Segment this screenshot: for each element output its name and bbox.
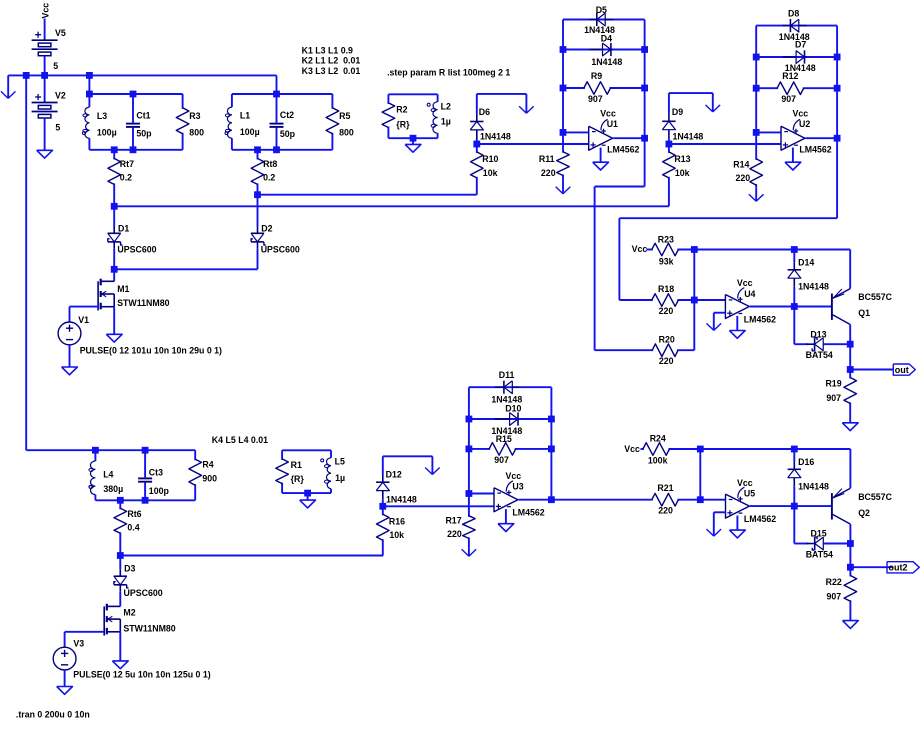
wire — [794, 505, 832, 507]
op-amp U5 — [726, 478, 777, 524]
wire — [668, 93, 670, 114]
svg-text:L1: L1 — [240, 110, 250, 120]
net arrow — [556, 180, 571, 194]
svg-text:.tran 0 200u 0 10n: .tran 0 200u 0 10n — [16, 710, 90, 720]
wire — [823, 343, 850, 345]
wire — [824, 543, 851, 545]
wire — [476, 139, 478, 145]
directive text K2 — [302, 56, 361, 66]
wire — [44, 118, 46, 151]
svg-text:D14: D14 — [798, 258, 814, 268]
capacitor Ct1 — [126, 94, 152, 150]
net label Vcc (top) — [41, 3, 51, 19]
wire — [793, 250, 795, 263]
junction — [641, 46, 648, 53]
svg-text:907: 907 — [827, 592, 842, 602]
svg-text:1µ: 1µ — [441, 116, 451, 126]
svg-text:R1: R1 — [291, 460, 302, 470]
wire — [594, 187, 596, 351]
junction — [111, 146, 118, 153]
svg-text:out2: out2 — [889, 563, 908, 573]
wire — [113, 269, 115, 281]
svg-text:PULSE(0 12 101u 10n 10n 29u 0: PULSE(0 12 101u 10n 10n 29u 0 1) — [80, 346, 222, 356]
wire — [257, 249, 259, 269]
wire — [756, 131, 781, 133]
svg-text:D1: D1 — [118, 223, 129, 233]
svg-text:1N4148: 1N4148 — [673, 132, 704, 142]
diode D4 — [589, 34, 622, 68]
junction — [86, 91, 93, 98]
net arrow — [749, 187, 764, 201]
svg-text:D10: D10 — [505, 404, 521, 414]
wire — [794, 343, 808, 345]
resistor R14 — [733, 132, 762, 187]
svg-text:50p: 50p — [136, 129, 152, 139]
wire — [119, 556, 121, 570]
junction — [548, 446, 555, 453]
wire — [469, 418, 552, 420]
svg-text:R4: R4 — [202, 459, 213, 469]
svg-text:907: 907 — [494, 455, 509, 465]
svg-text:Vcc: Vcc — [737, 478, 753, 488]
junction — [273, 146, 280, 153]
svg-text:K1 L3 L1 0.9: K1 L3 L1 0.9 — [302, 45, 353, 55]
net arrow — [425, 456, 440, 474]
net label Vcc — [632, 244, 648, 254]
op-amp U4 — [725, 278, 776, 324]
diode D16 — [788, 457, 829, 491]
resistor Rt8 — [251, 150, 277, 195]
resistor R21 — [652, 483, 701, 516]
inductor L5 — [321, 450, 345, 493]
svg-text:220: 220 — [659, 356, 674, 366]
svg-text:U4: U4 — [744, 289, 755, 299]
junction — [117, 552, 124, 559]
junction — [791, 503, 798, 510]
junction — [753, 129, 760, 136]
junction — [791, 446, 798, 453]
wire — [89, 93, 182, 95]
svg-text:Ct2: Ct2 — [280, 110, 294, 120]
ground — [405, 144, 421, 152]
net arrow — [707, 313, 722, 331]
wire — [69, 307, 71, 322]
junction — [697, 446, 704, 453]
svg-text:out: out — [895, 365, 909, 375]
wire — [700, 499, 725, 501]
resistor R18 — [619, 284, 694, 316]
junction — [560, 85, 567, 92]
svg-text:R16: R16 — [389, 516, 405, 526]
svg-text:R21: R21 — [657, 483, 673, 493]
svg-text:R20: R20 — [659, 335, 675, 345]
wire — [95, 449, 195, 451]
wire — [849, 325, 851, 370]
junction — [92, 447, 99, 454]
op-amp U2 — [781, 109, 832, 155]
svg-text:{R}: {R} — [396, 120, 410, 130]
ground — [300, 500, 316, 508]
svg-text:M2: M2 — [123, 608, 135, 618]
svg-text:LM4562: LM4562 — [744, 315, 776, 325]
svg-text:R14: R14 — [733, 159, 749, 169]
ground — [106, 334, 122, 342]
junction — [834, 85, 841, 92]
svg-text:50p: 50p — [280, 129, 296, 139]
resistor R2 — [382, 94, 410, 138]
svg-text:K4 L5 L4 0.01: K4 L5 L4 0.01 — [212, 435, 268, 445]
svg-text:0.2: 0.2 — [120, 173, 132, 183]
wire — [70, 306, 99, 308]
wire — [114, 268, 257, 270]
svg-text:D12: D12 — [386, 470, 402, 480]
svg-text:1N4148: 1N4148 — [798, 282, 829, 292]
wire — [64, 632, 66, 647]
wire — [25, 75, 27, 450]
wire — [793, 486, 795, 506]
wire — [793, 506, 795, 543]
svg-text:R12: R12 — [782, 71, 798, 81]
resistor R19 — [825, 370, 856, 423]
diode D2 — [251, 223, 300, 254]
transistor Q2 — [832, 488, 893, 524]
wire — [694, 249, 850, 251]
wire — [282, 449, 331, 451]
capacitor Ct3 — [138, 450, 169, 500]
resistor R23 — [647, 235, 695, 267]
svg-text:BAT54: BAT54 — [806, 350, 833, 360]
wire — [258, 194, 477, 196]
wire — [794, 543, 808, 545]
svg-text:220: 220 — [658, 506, 673, 516]
wire — [693, 250, 695, 351]
svg-text:BC557C: BC557C — [858, 492, 892, 502]
svg-text:10k: 10k — [483, 168, 498, 178]
wire — [69, 345, 71, 367]
ground — [842, 423, 858, 431]
wire — [619, 217, 837, 219]
ground — [62, 367, 78, 375]
svg-text:V2: V2 — [55, 90, 66, 100]
resistor R15 — [469, 434, 552, 465]
diode D1 — [108, 223, 157, 254]
wire — [563, 49, 645, 51]
wire — [750, 306, 794, 308]
wire — [44, 75, 46, 102]
net arrow — [707, 512, 722, 536]
junction — [410, 135, 417, 142]
junction — [23, 72, 30, 79]
wire — [469, 386, 552, 388]
ground — [730, 516, 746, 538]
junction — [666, 141, 673, 148]
ground — [593, 148, 609, 170]
wire — [562, 20, 564, 133]
net arrow — [1, 75, 16, 98]
svg-text:220: 220 — [541, 168, 556, 178]
svg-text:R23: R23 — [658, 235, 674, 245]
junction — [847, 564, 854, 571]
svg-text:PULSE(0 12 5u 10n 10n 125u 0 1: PULSE(0 12 5u 10n 10n 125u 0 1) — [73, 670, 210, 680]
svg-text:LM4562: LM4562 — [512, 508, 544, 518]
wire — [750, 505, 794, 507]
wire — [699, 449, 701, 500]
junction — [548, 416, 555, 423]
svg-text:1N4148: 1N4148 — [591, 57, 622, 67]
junction — [834, 135, 841, 142]
svg-text:Ct3: Ct3 — [149, 468, 163, 478]
diode D14 — [788, 258, 829, 292]
transistor Q1 — [832, 289, 893, 325]
svg-text:R17: R17 — [445, 516, 461, 526]
svg-text:UPSC600: UPSC600 — [261, 244, 300, 254]
capacitor Ct2 — [270, 94, 296, 150]
svg-text:R3: R3 — [189, 111, 200, 121]
junction — [847, 341, 854, 348]
wire — [113, 206, 115, 226]
resistor R22 — [826, 567, 857, 620]
junction — [691, 246, 698, 253]
diode D5 — [584, 5, 615, 35]
svg-text:D7: D7 — [795, 40, 806, 50]
svg-text:Rt7: Rt7 — [120, 159, 134, 169]
svg-text:Rt6: Rt6 — [127, 509, 141, 519]
junction — [111, 266, 118, 273]
wire — [64, 670, 66, 687]
svg-text:U2: U2 — [799, 119, 810, 129]
wire — [836, 26, 838, 219]
inductor L4 — [89, 450, 123, 500]
wire — [668, 138, 670, 144]
svg-text:Vcc: Vcc — [737, 278, 753, 288]
inductor L3 — [83, 94, 117, 150]
wire — [382, 456, 384, 474]
svg-text:{R}: {R} — [291, 474, 305, 484]
wire — [388, 93, 437, 95]
svg-text:D6: D6 — [479, 107, 490, 117]
junction — [691, 297, 698, 304]
junction — [273, 91, 280, 98]
wire — [113, 249, 115, 269]
svg-text:STW11NM80: STW11NM80 — [117, 298, 169, 308]
net arrow — [706, 93, 721, 112]
wire — [756, 56, 837, 58]
directive text .tran — [16, 710, 90, 720]
wire — [669, 92, 713, 94]
svg-text:U5: U5 — [744, 489, 755, 499]
wire — [468, 387, 470, 493]
wire — [756, 25, 837, 27]
junction — [791, 246, 798, 253]
svg-text:V5: V5 — [55, 28, 66, 38]
svg-text:D9: D9 — [672, 107, 683, 117]
ground — [57, 687, 73, 695]
svg-text:907: 907 — [588, 94, 603, 104]
wire — [794, 306, 832, 308]
wire — [257, 195, 259, 227]
directive text K4 — [212, 435, 268, 445]
svg-text:Vcc: Vcc — [632, 244, 648, 254]
junction — [142, 447, 149, 454]
ground — [112, 661, 128, 669]
wire — [113, 307, 115, 335]
wire — [618, 218, 620, 300]
svg-text:LM4562: LM4562 — [744, 514, 776, 524]
junction — [548, 496, 555, 503]
svg-text:Rt8: Rt8 — [263, 159, 277, 169]
svg-text:V3: V3 — [73, 639, 84, 649]
svg-text:380µ: 380µ — [103, 484, 123, 494]
wire — [550, 387, 552, 500]
resistor R12 — [756, 71, 837, 104]
svg-text:D13: D13 — [810, 329, 826, 339]
svg-text:LM4562: LM4562 — [607, 144, 639, 154]
wire — [613, 137, 644, 139]
wire — [388, 137, 437, 139]
svg-text:907: 907 — [826, 393, 841, 403]
svg-text:D5: D5 — [596, 5, 607, 15]
svg-text:93k: 93k — [659, 257, 674, 267]
svg-text:R2: R2 — [396, 104, 407, 114]
junction — [41, 72, 48, 79]
resistor R17 — [445, 494, 475, 548]
wire — [88, 75, 90, 94]
junction — [254, 191, 261, 198]
wire — [694, 299, 725, 301]
battery V2 — [32, 90, 66, 132]
net label Vcc — [624, 444, 640, 454]
junction — [130, 91, 137, 98]
wire — [8, 74, 276, 76]
resistor R5 — [326, 94, 354, 150]
svg-text:U3: U3 — [512, 482, 523, 492]
diode D3 — [114, 563, 163, 598]
svg-text:5: 5 — [53, 61, 58, 71]
svg-text:0.4: 0.4 — [127, 523, 139, 533]
wire — [714, 511, 726, 513]
wire — [551, 499, 651, 501]
inductor L2 — [427, 94, 451, 138]
svg-text:1µ: 1µ — [335, 473, 345, 483]
wire — [714, 312, 726, 314]
svg-text:R22: R22 — [826, 577, 842, 587]
transistor M2 — [104, 604, 176, 636]
diode D10 — [491, 404, 522, 436]
svg-text:D16: D16 — [798, 457, 814, 467]
diode D11 — [491, 370, 522, 404]
wire — [850, 369, 893, 371]
svg-text:Q2: Q2 — [858, 508, 870, 518]
svg-text:1N4148: 1N4148 — [480, 132, 511, 142]
wire — [755, 26, 757, 133]
svg-text:907: 907 — [781, 94, 796, 104]
svg-text:R13: R13 — [674, 154, 690, 164]
svg-text:UPSC600: UPSC600 — [124, 588, 163, 598]
battery V5 — [32, 28, 66, 71]
svg-text:D2: D2 — [261, 223, 272, 233]
resistor R4 — [189, 450, 217, 500]
svg-text:D8: D8 — [788, 8, 799, 18]
diode D7 — [783, 40, 816, 73]
wire — [793, 287, 795, 307]
wire — [119, 632, 121, 661]
ground — [498, 509, 514, 531]
svg-text:100µ: 100µ — [97, 127, 117, 137]
svg-text:Vcc: Vcc — [624, 444, 640, 454]
svg-text:D11: D11 — [499, 370, 515, 380]
junction — [304, 490, 311, 497]
svg-text:R9: R9 — [591, 71, 602, 81]
svg-text:STW11NM80: STW11NM80 — [123, 624, 175, 634]
svg-text:L2: L2 — [441, 102, 451, 112]
svg-text:100p: 100p — [149, 486, 170, 496]
net arrow — [462, 547, 477, 556]
inductor L1 — [225, 94, 260, 150]
wire — [849, 250, 851, 289]
wire — [793, 307, 795, 345]
svg-text:Ct1: Ct1 — [136, 110, 150, 120]
svg-text:L4: L4 — [103, 469, 113, 479]
wire — [595, 186, 645, 188]
svg-text:800: 800 — [339, 127, 354, 137]
wire — [477, 93, 527, 95]
op-amp U1 — [589, 109, 640, 155]
resistor R1 — [276, 450, 305, 493]
wire — [119, 592, 121, 607]
svg-text:M1: M1 — [117, 284, 129, 294]
net arrow — [519, 94, 534, 113]
junction — [466, 490, 473, 497]
svg-text:V1: V1 — [78, 315, 89, 325]
wire — [120, 555, 383, 557]
junction — [142, 497, 149, 504]
junction — [697, 496, 704, 503]
wire — [806, 137, 838, 139]
wire — [232, 93, 333, 95]
diode D12 — [376, 470, 417, 505]
diode D6 — [470, 107, 511, 142]
svg-text:800: 800 — [189, 127, 204, 137]
wire — [519, 499, 552, 501]
svg-text:R19: R19 — [825, 379, 841, 389]
junction — [791, 303, 798, 310]
wire — [232, 149, 333, 151]
junction — [86, 72, 93, 79]
wire — [563, 131, 589, 133]
wire — [644, 20, 646, 187]
svg-text:BAT54: BAT54 — [806, 550, 833, 560]
svg-text:L3: L3 — [97, 111, 107, 121]
wire — [282, 492, 331, 494]
resistor R24 — [641, 433, 701, 465]
value label PULSE V1 — [80, 346, 222, 356]
resistor Rt6 — [114, 500, 142, 555]
diode D15 — [806, 529, 833, 560]
directive text K3 — [302, 66, 361, 76]
ground — [37, 150, 53, 158]
svg-text:0.2: 0.2 — [263, 173, 275, 183]
wire — [95, 499, 195, 501]
svg-text:L5: L5 — [335, 456, 345, 466]
svg-text:R5: R5 — [339, 111, 350, 121]
svg-text:UPSC600: UPSC600 — [117, 244, 156, 254]
svg-text:BC557C: BC557C — [858, 292, 892, 302]
svg-text:D4: D4 — [601, 34, 612, 44]
junction — [466, 416, 473, 423]
junction — [641, 135, 648, 142]
svg-text:U1: U1 — [607, 119, 618, 129]
junction — [753, 85, 760, 92]
